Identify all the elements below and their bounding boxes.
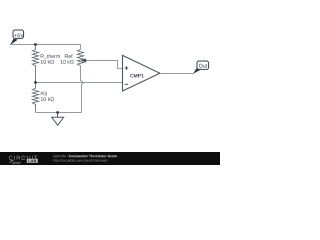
op-amp comparator CMP1 [123, 55, 160, 91]
resistor R_therm 10k [32, 45, 60, 83]
pot wiper arrow [81, 59, 123, 69]
wire pot bottom lead (hops over mid rail) [81, 66, 84, 113]
junction ground [56, 111, 59, 114]
node +5V supply flag [10, 30, 24, 45]
wire mid rail to inverting input [36, 82, 123, 84]
node Out flag [193, 61, 209, 74]
resistor R3 10k [32, 83, 54, 113]
footer bar [0, 152, 220, 165]
ground symbol [52, 113, 64, 126]
potentiometer Ref 10k [61, 49, 84, 65]
wire bottom rail [36, 112, 82, 114]
pin + non-inverting [125, 66, 129, 70]
junction mid rail [34, 81, 37, 84]
pin - inverting [125, 83, 129, 85]
wire top rail from +5V to pot top [10, 45, 81, 50]
footer text line 2 [53, 159, 107, 162]
wire op-amp output [160, 73, 193, 75]
footer text line 1 [53, 155, 117, 158]
junction R_therm top [34, 43, 37, 46]
footer CircuitLab logo [9, 156, 38, 164]
